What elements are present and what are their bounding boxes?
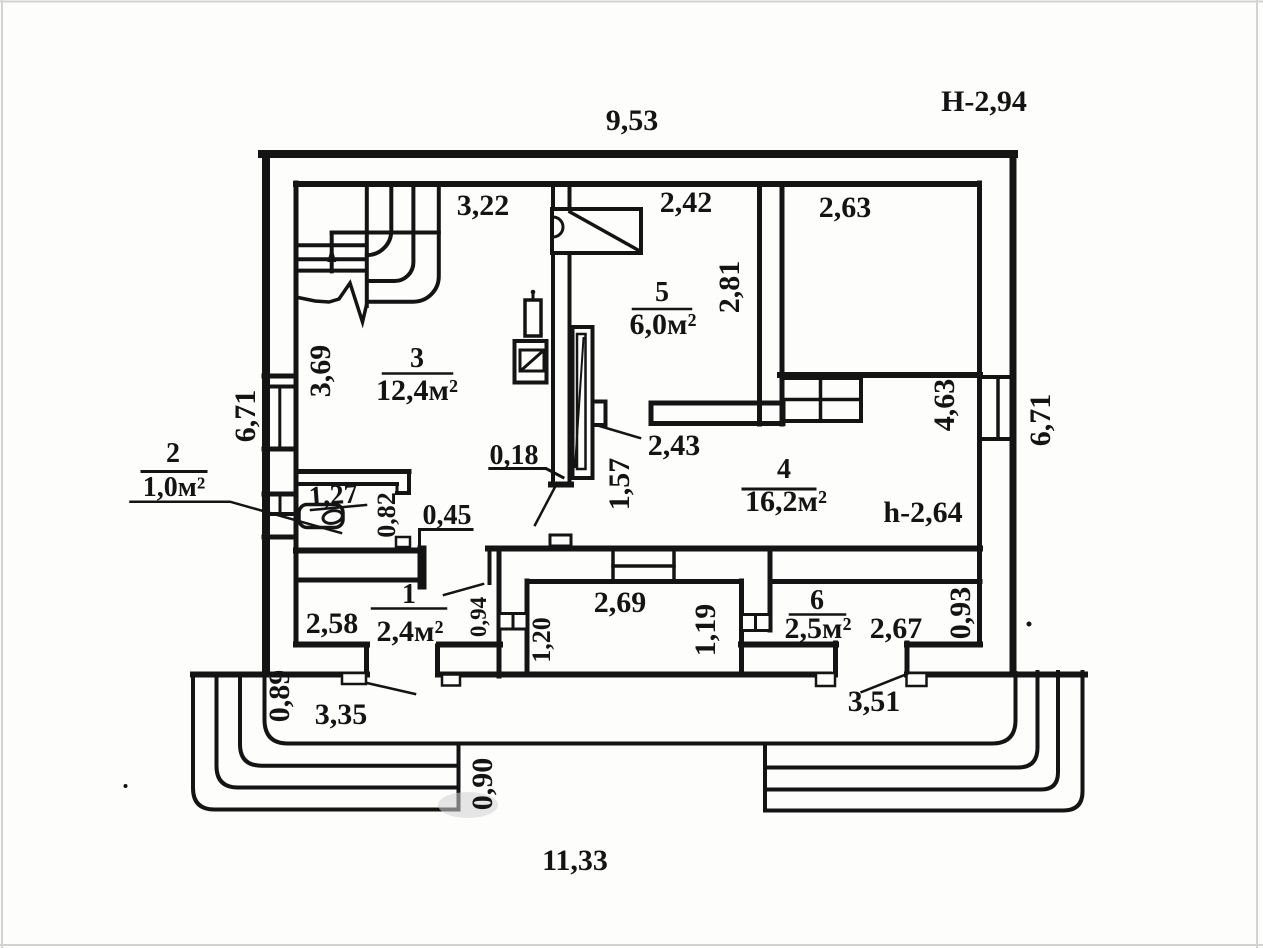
wall bottom band lower line xyxy=(527,579,740,584)
speck dots xyxy=(1027,622,1032,627)
steps right xyxy=(765,672,1083,811)
svg-text:2,58: 2,58 xyxy=(306,607,359,640)
svg-text:0,89: 0,89 xyxy=(263,670,296,723)
svg-text:0,45: 0,45 xyxy=(423,500,472,531)
wall inner right xyxy=(977,183,982,644)
porch jamb walls xyxy=(364,646,369,674)
svg-text:3,35: 3,35 xyxy=(315,698,368,731)
underline room2 label xyxy=(142,470,206,473)
svg-text:H-2,94: H-2,94 xyxy=(941,85,1027,118)
svg-text:11,33: 11,33 xyxy=(542,844,608,877)
window W5 porch left xyxy=(499,614,513,630)
staircase flight edge 2 xyxy=(367,188,392,255)
svg-text:2,4м²: 2,4м² xyxy=(377,615,444,648)
staircase landing line xyxy=(332,231,439,235)
door jamb cell band A left xyxy=(488,548,492,583)
wall outer left xyxy=(262,155,270,672)
svg-text:6,71: 6,71 xyxy=(1024,394,1057,447)
svg-text:3: 3 xyxy=(410,343,424,374)
underline room3 label xyxy=(383,372,452,375)
closet shelf wall xyxy=(296,469,409,474)
partition room3|hall lower xyxy=(551,252,555,483)
underline room4 label xyxy=(743,488,815,491)
svg-text:16,2м²: 16,2м² xyxy=(745,485,827,518)
window W2 left wall xyxy=(264,492,296,497)
underline 0,45 xyxy=(420,530,473,549)
svg-text:0,94: 0,94 xyxy=(466,596,491,637)
staircase rail xyxy=(330,233,334,272)
svg-text:2,43: 2,43 xyxy=(648,429,701,462)
svg-text:3,22: 3,22 xyxy=(457,189,510,222)
door jamb ticks xyxy=(342,673,366,684)
svg-text:4,63: 4,63 xyxy=(928,379,961,432)
svg-text:0,18: 0,18 xyxy=(490,440,539,471)
staircase treads xyxy=(296,243,366,247)
stove body xyxy=(515,341,547,383)
door leaf xyxy=(573,327,593,478)
wall outer right xyxy=(1010,155,1017,672)
svg-text:9,53: 9,53 xyxy=(606,104,659,137)
staircase flight edge 4 xyxy=(368,188,438,302)
underline room5 label xyxy=(633,308,691,311)
window W3 right wall xyxy=(980,375,1013,379)
wall bottom outer segments xyxy=(193,672,367,678)
svg-text:0,93: 0,93 xyxy=(944,587,977,640)
svg-text:1,20: 1,20 xyxy=(527,617,556,663)
svg-text:1,27: 1,27 xyxy=(308,478,359,512)
wall top-right room bottom xyxy=(780,372,980,378)
svg-text:1,0м²: 1,0м² xyxy=(143,472,205,503)
door stop block xyxy=(593,402,606,426)
window W4 hall bottom wall xyxy=(613,564,674,568)
window W6 porch right xyxy=(742,615,756,631)
vent duct symbol xyxy=(552,209,641,253)
svg-text:h-2,64: h-2,64 xyxy=(883,496,962,529)
stove pipe xyxy=(532,294,535,300)
svg-text:2,42: 2,42 xyxy=(660,186,713,219)
svg-text:2,69: 2,69 xyxy=(594,586,647,619)
wall inner left xyxy=(294,183,299,644)
leader room2 xyxy=(131,502,342,533)
svg-text:5: 5 xyxy=(655,277,669,308)
svg-text:2,5м²: 2,5м² xyxy=(785,612,852,645)
leader 0,18 xyxy=(490,469,563,478)
leader 3,35 xyxy=(367,683,415,694)
svg-text:0,82: 0,82 xyxy=(372,492,401,538)
svg-text:6,0м²: 6,0м² xyxy=(630,308,697,341)
leader 3,51 xyxy=(862,674,907,692)
wall inner top xyxy=(296,181,978,187)
partition room3|room5 upper stubs xyxy=(551,188,555,210)
window W1 left wall xyxy=(264,374,296,379)
smudge xyxy=(438,792,498,818)
svg-text:2,81: 2,81 xyxy=(713,261,746,314)
staircase flight edge 3 xyxy=(368,188,413,281)
svg-text:12,4м²: 12,4м² xyxy=(376,374,458,407)
svg-text:2,63: 2,63 xyxy=(819,191,872,224)
wall outer top xyxy=(262,150,1014,158)
steps left xyxy=(193,675,459,810)
underline 1,27 xyxy=(311,505,366,510)
svg-text:6,71: 6,71 xyxy=(229,390,262,443)
underline room1 label xyxy=(372,607,446,610)
wall bottom band top line xyxy=(296,548,417,554)
svg-text:3,69: 3,69 xyxy=(304,345,337,398)
leader door bottom xyxy=(535,488,555,525)
wall room5 bottom xyxy=(651,403,783,424)
door swing arc xyxy=(553,217,563,237)
staircase break line xyxy=(298,283,367,322)
staircase flight edge 1 xyxy=(365,188,369,306)
underline room6 label xyxy=(790,613,845,616)
svg-text:1: 1 xyxy=(402,579,416,610)
wall y644 segments xyxy=(296,642,367,648)
leader 2,43 xyxy=(596,425,640,438)
stair arrow xyxy=(327,246,336,262)
svg-text:2: 2 xyxy=(166,438,180,469)
svg-text:1,57: 1,57 xyxy=(603,458,636,511)
room1 band right closure xyxy=(418,550,427,585)
svg-text:1,19: 1,19 xyxy=(689,604,722,657)
flue block 2x2 xyxy=(782,378,861,421)
svg-text:4: 4 xyxy=(777,454,791,485)
svg-text:2,67: 2,67 xyxy=(870,612,923,645)
svg-text:3,51: 3,51 xyxy=(848,685,901,718)
porch platform front edge xyxy=(265,673,1016,744)
svg-text:0,90: 0,90 xyxy=(466,758,499,811)
WC pan room2 xyxy=(299,505,343,528)
leader 0,94 xyxy=(444,584,483,595)
partition room5|room4 upper xyxy=(757,188,762,424)
